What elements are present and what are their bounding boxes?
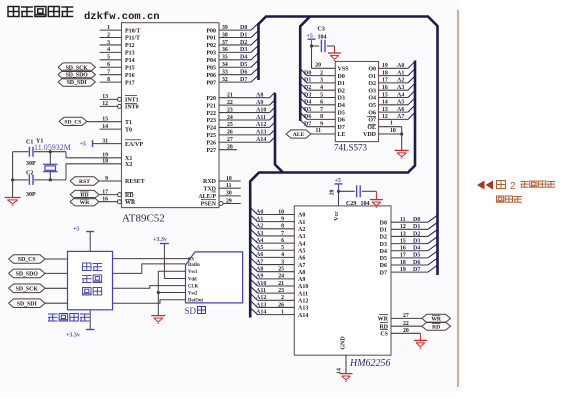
- net flag SD_SCK bottom: [9, 284, 46, 293]
- svg-text:10: 10: [226, 176, 232, 182]
- AT89C52 pin 10 RXD: [219, 180, 241, 182]
- svg-text:19: 19: [382, 63, 388, 69]
- svg-text:P02: P02: [206, 43, 216, 49]
- svg-text:T1: T1: [125, 120, 132, 126]
- svg-text:2: 2: [320, 70, 323, 76]
- AT89C52 pin 1 P10/T: [100, 29, 122, 31]
- svg-text:27: 27: [227, 137, 233, 143]
- svg-text:25: 25: [278, 267, 284, 273]
- wire flag to converter 1: [45, 258, 68, 260]
- svg-text:38: 38: [222, 32, 228, 38]
- svg-text:A2: A2: [397, 78, 404, 84]
- 74LS573 pin 5 D3: [307, 97, 335, 99]
- net flag SD_CS bottom: [9, 255, 46, 264]
- svg-text:18: 18: [400, 260, 406, 266]
- svg-text:23: 23: [227, 107, 233, 113]
- svg-text:D6: D6: [240, 69, 247, 75]
- AT89C52 pin 2 P11/T: [100, 37, 122, 39]
- svg-text:34: 34: [222, 62, 228, 68]
- svg-text:SD_SDI: SD_SDI: [67, 80, 88, 86]
- svg-text:D7: D7: [338, 125, 345, 131]
- AT89C52 pin 31 EA/VP: [93, 143, 122, 145]
- sidebar separator line: [457, 10, 459, 387]
- svg-text:SD_CS: SD_CS: [64, 120, 81, 126]
- svg-text:D1: D1: [338, 81, 345, 87]
- svg-text:DatIn: DatIn: [188, 263, 200, 268]
- svg-text:+5: +5: [307, 34, 313, 40]
- svg-text:A13: A13: [298, 306, 308, 312]
- svg-text:26: 26: [227, 130, 233, 136]
- svg-text:D1: D1: [413, 224, 420, 230]
- svg-text:D6: D6: [380, 263, 387, 269]
- svg-text:15: 15: [382, 92, 388, 98]
- svg-text:+3.3v: +3.3v: [153, 237, 167, 243]
- sidebar caption figure 2: [477, 181, 493, 190]
- svg-text:2: 2: [107, 32, 110, 38]
- address bus A8-A14 from P2 ports: [275, 93, 283, 173]
- 74LS573 pin 20 VSS: [312, 67, 336, 69]
- AT89C52 pin 5 P14: [100, 59, 122, 61]
- svg-text:5: 5: [320, 92, 323, 98]
- AT89C52 pin 13 INT1: [100, 98, 118, 100]
- svg-text:9: 9: [320, 122, 323, 128]
- AT89C52 pin 38 P01 wire with net label D1: [219, 37, 251, 39]
- svg-text:21: 21: [227, 93, 233, 99]
- AT89C52 pin 27 P26 wire with net label A14: [219, 141, 270, 143]
- svg-text:A13: A13: [256, 130, 266, 136]
- svg-text:8: 8: [107, 77, 110, 83]
- ground CS: [414, 339, 427, 341]
- svg-text:A7: A7: [397, 114, 404, 120]
- AT89C52 pin 28 P27 stub: [219, 149, 237, 151]
- AT89C52 pin 39 P00 wire with net label D0: [219, 29, 251, 31]
- svg-text:17: 17: [102, 189, 108, 195]
- svg-text:P07: P07: [206, 80, 216, 86]
- svg-text:12: 12: [102, 101, 108, 107]
- svg-text:O0: O0: [368, 67, 376, 73]
- ground 74LS573 OE: [395, 149, 409, 151]
- power +3.3v SD: [160, 243, 169, 245]
- svg-text:A14: A14: [298, 313, 308, 319]
- svg-text:6: 6: [320, 100, 323, 106]
- svg-text:Vss2: Vss2: [188, 291, 198, 296]
- header site title text: [8, 7, 19, 17]
- svg-text:27: 27: [403, 313, 409, 319]
- AT89C52 pin 29 PSEN: [223, 203, 241, 205]
- svg-text:P23: P23: [206, 118, 216, 124]
- svg-text:28: 28: [227, 145, 233, 151]
- svg-text:D7: D7: [380, 270, 387, 276]
- svg-text:P10/T: P10/T: [125, 28, 140, 34]
- svg-text:P25: P25: [206, 133, 216, 139]
- svg-text:D1: D1: [380, 228, 387, 234]
- svg-text:RD: RD: [125, 193, 134, 199]
- 74LS573 pin 2 D0: [307, 75, 335, 77]
- HM62256 pin 1 A14: [258, 314, 295, 316]
- svg-text:18: 18: [102, 159, 108, 165]
- svg-text:CS: CS: [380, 332, 388, 338]
- 74LS573 pin 17 O2 wire with net label A2: [379, 82, 409, 84]
- svg-text:36: 36: [222, 47, 228, 53]
- svg-text:4: 4: [281, 252, 284, 258]
- svg-text:T0: T0: [125, 127, 132, 133]
- svg-text:+5: +5: [335, 178, 341, 184]
- svg-text:D2: D2: [380, 235, 387, 241]
- svg-text:16: 16: [382, 85, 388, 91]
- AT89C52 pin 34 P05 wire with net label D5: [219, 66, 251, 68]
- svg-text:P17: P17: [125, 80, 135, 86]
- svg-text:A4: A4: [397, 92, 404, 98]
- svg-text:17: 17: [400, 253, 406, 259]
- svg-text:6: 6: [107, 62, 110, 68]
- 74LS573 pin 1 OE: [379, 126, 402, 128]
- svg-text:D5: D5: [338, 110, 345, 116]
- svg-text:WR: WR: [378, 317, 389, 323]
- svg-text:29: 29: [226, 198, 232, 204]
- svg-text:A1: A1: [298, 220, 305, 226]
- svg-text:VSS: VSS: [338, 67, 350, 73]
- AT89C52 pin 4 P13: [100, 51, 122, 53]
- svg-text:1: 1: [390, 121, 393, 127]
- net flag SD_CS: [59, 117, 87, 125]
- svg-text:17: 17: [382, 78, 388, 84]
- HM62256 pin 7 A3: [258, 235, 295, 237]
- 74LS573 pin 3 D1: [307, 82, 335, 84]
- svg-text:D0: D0: [338, 74, 345, 80]
- svg-text:2: 2: [281, 295, 284, 301]
- bus branch to 74LS573 D inputs: [300, 17, 310, 122]
- AT89C52 pin 12 INT0: [100, 105, 118, 107]
- svg-text:Vss1: Vss1: [188, 270, 198, 275]
- 74LS573 pin 14 O5 wire with net label A5: [379, 104, 409, 106]
- ground C3: [328, 52, 341, 54]
- HM62256 pin 27 WR: [391, 317, 422, 319]
- svg-text:8: 8: [281, 224, 284, 230]
- svg-text:74LS573: 74LS573: [334, 143, 368, 153]
- svg-text:D3: D3: [338, 96, 345, 102]
- net flag RD: [70, 190, 99, 198]
- svg-text:3: 3: [320, 78, 323, 84]
- svg-text:1: 1: [281, 309, 284, 315]
- svg-text:11: 11: [400, 217, 406, 223]
- svg-text:11: 11: [226, 183, 232, 189]
- svg-text:10: 10: [278, 209, 284, 215]
- AT89C52 pin 8 P17: [100, 81, 122, 83]
- AT89C52 pin 17 RD: [99, 194, 118, 196]
- svg-text:A6: A6: [397, 107, 404, 113]
- svg-text:ALE: ALE: [293, 132, 305, 138]
- svg-text:LE: LE: [338, 132, 346, 138]
- svg-text:D5: D5: [380, 256, 387, 262]
- junction crystal top node: [49, 150, 52, 153]
- net flag RST: [70, 177, 99, 185]
- net flag WR out: [422, 314, 451, 322]
- svg-text:SD_CS: SD_CS: [18, 257, 36, 263]
- svg-text:37: 37: [222, 40, 228, 46]
- HM62256 pin 12 D1 wire with net label D1: [391, 228, 428, 230]
- power +3.3v converter: [86, 329, 95, 331]
- svg-text:39: 39: [222, 25, 228, 31]
- svg-text:31: 31: [102, 138, 108, 144]
- svg-text:P11/T: P11/T: [125, 36, 140, 42]
- AT89C52 pin 18 X2: [66, 163, 122, 165]
- svg-text:8: 8: [320, 114, 323, 120]
- svg-text:32: 32: [222, 77, 228, 83]
- svg-text:18: 18: [382, 70, 388, 76]
- svg-text:14: 14: [102, 124, 108, 130]
- net flag SD_SCK: [58, 63, 95, 72]
- svg-text:20: 20: [315, 62, 321, 68]
- svg-text:P22: P22: [206, 111, 216, 117]
- svg-text:A4: A4: [298, 241, 305, 247]
- svg-text:D4: D4: [380, 249, 387, 255]
- HM62256 pin 11 D0 wire with net label D0: [391, 221, 428, 223]
- svg-text:WR: WR: [125, 200, 136, 206]
- svg-text:23: 23: [278, 288, 284, 294]
- svg-text:SD_SCK: SD_SCK: [16, 286, 39, 292]
- AT89C52 pin 6 P15: [100, 66, 122, 68]
- svg-text:O1: O1: [368, 74, 376, 80]
- svg-text:1: 1: [107, 25, 110, 31]
- AT89C52 pin 21 P20 wire with net label A8: [219, 97, 270, 99]
- svg-text:P13: P13: [125, 51, 135, 57]
- junction +5 C3 node: [310, 44, 313, 47]
- svg-text:P12: P12: [125, 43, 135, 49]
- svg-text:104: 104: [318, 35, 327, 41]
- HM62256 pin 14 GND: [345, 355, 347, 373]
- svg-text:30P: 30P: [26, 161, 36, 167]
- HM62256 pin 21 A10: [258, 285, 295, 287]
- svg-text:A0: A0: [397, 63, 404, 69]
- address bus horizontal segment: [250, 61, 415, 318]
- wire flag to converter 2: [45, 272, 68, 274]
- svg-text:GND: GND: [341, 336, 347, 350]
- svg-text:RESET: RESET: [125, 179, 145, 185]
- svg-text:13: 13: [102, 94, 108, 100]
- 74LS573 pin 11 LE: [311, 133, 335, 135]
- wire X2: [65, 164, 67, 180]
- svg-text:35: 35: [222, 55, 228, 61]
- junction ground leg: [11, 178, 14, 181]
- svg-text:P04: P04: [206, 58, 216, 64]
- svg-text:A5: A5: [397, 100, 404, 106]
- AT89C52 pin 19 X1: [66, 157, 122, 159]
- svg-text:O2: O2: [368, 81, 376, 87]
- svg-text:104: 104: [361, 201, 370, 207]
- svg-text:WR: WR: [80, 200, 91, 206]
- svg-text:A12: A12: [256, 122, 266, 128]
- HM62256 pin 13 D2 wire with net label D2: [391, 235, 428, 237]
- AT89C52 pin 32 P07 wire with net label D7: [219, 81, 251, 83]
- svg-text:A8: A8: [298, 270, 305, 276]
- svg-text:+3.3v: +3.3v: [66, 333, 80, 339]
- svg-text:C2: C2: [26, 171, 33, 177]
- svg-text:13: 13: [400, 231, 406, 237]
- AT89C52 pin 33 P06 wire with net label D6: [219, 74, 251, 76]
- ground SD: [151, 315, 165, 317]
- svg-text:24: 24: [278, 274, 284, 280]
- svg-text:P15: P15: [125, 65, 135, 71]
- svg-text:O3: O3: [368, 88, 376, 94]
- wire OE-VDD to ground: [401, 127, 403, 151]
- svg-text:ALE/P: ALE/P: [198, 194, 216, 200]
- AT89C52 pin 16 WR: [99, 201, 118, 203]
- HM62256 pin 28 Vcc: [338, 191, 340, 206]
- svg-text:A11: A11: [298, 291, 308, 297]
- AT89C52 pin 25 P24 wire with net label A12: [219, 126, 270, 128]
- svg-text:22: 22: [227, 100, 233, 106]
- svg-text:P05: P05: [206, 65, 216, 71]
- HM62256 pin 4 A6: [258, 256, 295, 258]
- svg-text:2: 2: [510, 181, 516, 192]
- svg-text:O6: O6: [368, 110, 376, 116]
- svg-text:30: 30: [226, 191, 232, 197]
- wire X1: [65, 152, 67, 158]
- svg-text:OE: OE: [367, 125, 376, 131]
- svg-text:12: 12: [382, 114, 388, 120]
- svg-text:P24: P24: [206, 126, 216, 132]
- svg-text:A0: A0: [298, 213, 305, 219]
- HM62256 pin 22 RD: [391, 325, 422, 327]
- svg-text:EA/VP: EA/VP: [125, 142, 143, 148]
- wire CS to ground: [419, 333, 421, 340]
- svg-text:P03: P03: [206, 51, 216, 57]
- svg-text:11.05932M: 11.05932M: [34, 143, 71, 152]
- 74LS573 pin 10 VDD: [379, 133, 402, 135]
- svg-text:D5: D5: [240, 62, 247, 68]
- svg-text:11: 11: [316, 128, 322, 134]
- svg-text:A6: A6: [298, 256, 305, 262]
- 74LS573 pin 4 D2: [307, 89, 335, 91]
- HM62256 pin 5 A5: [258, 249, 295, 251]
- svg-text:A9: A9: [298, 277, 305, 283]
- svg-text:D4: D4: [413, 246, 420, 252]
- svg-text:16: 16: [102, 197, 108, 203]
- HM62256 pin 25 A8: [258, 271, 295, 273]
- svg-text:O4: O4: [368, 96, 376, 102]
- 74LS573 pin 13 O6 wire with net label A6: [379, 111, 409, 113]
- svg-text:A7: A7: [298, 263, 305, 269]
- AT89C52 pin 23 P22 wire with net label A10: [219, 112, 270, 114]
- svg-text:15: 15: [400, 238, 406, 244]
- HM62256 pin 9 A1: [258, 221, 295, 223]
- HM62256 pin 26 A13: [258, 306, 295, 308]
- svg-text:D0: D0: [380, 220, 387, 226]
- svg-text:C1: C1: [26, 140, 33, 146]
- level shifter block body: [68, 251, 113, 309]
- SRAM U3 HM62256 body: [294, 206, 391, 355]
- svg-text:33: 33: [222, 69, 228, 75]
- svg-text:D0: D0: [413, 217, 420, 223]
- wire Vss to ground: [158, 271, 185, 315]
- wire converter to SD CLK: [113, 286, 186, 289]
- svg-text:24: 24: [227, 115, 233, 121]
- HM62256 pin 23 A11: [258, 292, 295, 294]
- svg-text:22: 22: [403, 321, 409, 327]
- svg-text:4: 4: [320, 85, 323, 91]
- HM62256 pin 16 D4 wire with net label D4: [391, 250, 428, 252]
- net flag RD out: [422, 322, 451, 330]
- label converter circuit: [48, 314, 58, 321]
- svg-text:D3: D3: [380, 242, 387, 248]
- capacitor C3 104: [312, 45, 320, 47]
- svg-text:7: 7: [281, 231, 284, 237]
- svg-text:RST: RST: [79, 179, 90, 185]
- svg-text:C29: C29: [346, 201, 356, 207]
- svg-text:P26: P26: [206, 140, 216, 146]
- wire Vss2: [158, 292, 185, 294]
- svg-text:RD: RD: [432, 324, 440, 330]
- svg-text:A11: A11: [256, 115, 266, 121]
- data bus D0-D7 top loop: [259, 17, 438, 276]
- wire +3.3v to Vdd: [164, 278, 185, 280]
- junction OE-VDD node: [400, 132, 403, 135]
- svg-text:VDD: VDD: [363, 132, 377, 138]
- svg-text:A12: A12: [298, 299, 308, 305]
- wire converter to SD DatIn: [113, 264, 186, 274]
- HM62256 pin 24 A9: [258, 278, 295, 280]
- svg-text:21: 21: [278, 281, 284, 287]
- AT89C52 pin 24 P23 wire with net label A11: [219, 119, 270, 121]
- svg-text:P00: P00: [206, 28, 216, 34]
- svg-text:HM62256: HM62256: [349, 358, 391, 369]
- net flag SD_SDO bottom: [9, 269, 46, 278]
- svg-text:D6: D6: [338, 118, 345, 124]
- net flag SD_SDI: [58, 78, 95, 87]
- HM62256 pin 6 A4: [258, 242, 295, 244]
- svg-text:P06: P06: [206, 73, 216, 79]
- svg-text:6: 6: [281, 238, 284, 244]
- 74LS573 pin 7 D5: [307, 111, 335, 113]
- svg-text:O5: O5: [368, 103, 376, 109]
- junction Vcc C29 node: [337, 190, 340, 193]
- svg-text:P20: P20: [206, 96, 216, 102]
- ground GND pin: [340, 373, 353, 375]
- svg-text:PSEN: PSEN: [201, 202, 217, 208]
- svg-text:P21: P21: [206, 103, 216, 109]
- svg-text:D2: D2: [240, 40, 247, 46]
- 74LS573 pin 19 O0 wire with net label A0: [379, 67, 409, 69]
- HM62256 pin 15 D3 wire with net label D3: [391, 243, 428, 245]
- svg-text:D2: D2: [338, 88, 345, 94]
- svg-text:SD_SDI: SD_SDI: [17, 301, 38, 307]
- svg-text:3: 3: [107, 40, 110, 46]
- AT89C52 pin 15 T1: [87, 121, 122, 123]
- AT89C52 pin 30 ALE/P: [219, 195, 241, 197]
- svg-text:+5: +5: [73, 227, 79, 233]
- HM62256 pin 10 A0: [258, 214, 295, 216]
- svg-text:Vdd: Vdd: [188, 277, 197, 282]
- wire flag to converter 3: [45, 287, 68, 289]
- svg-text:P14: P14: [125, 58, 135, 64]
- svg-text:D4: D4: [240, 55, 247, 61]
- 74LS573 pin 6 D4: [307, 104, 335, 106]
- svg-text:9: 9: [281, 216, 284, 222]
- svg-text:A5: A5: [298, 248, 305, 254]
- ground C29: [370, 199, 383, 201]
- svg-text:D1: D1: [240, 32, 247, 38]
- junction crystal bottom node: [49, 178, 52, 181]
- svg-text:DatOut: DatOut: [188, 299, 204, 304]
- svg-text:20: 20: [403, 328, 409, 334]
- net flag WR: [70, 198, 99, 206]
- 74LS573 pin 16 O3 wire with net label A3: [379, 89, 409, 91]
- net flag SD_SDI bottom: [9, 299, 46, 308]
- AT89C52 pin 36 P03 wire with net label D3: [219, 51, 251, 53]
- SD card connector body: [186, 252, 243, 303]
- AT89C52 pin 26 P25 wire with net label A13: [219, 134, 270, 136]
- svg-text:14: 14: [382, 100, 388, 106]
